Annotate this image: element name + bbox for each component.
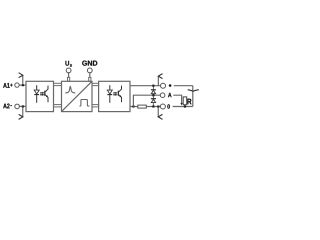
optocoupler U3 light arrow 1 [113, 92, 116, 94]
wire A to load [173, 95, 181, 103]
optocoupler U1 light arrow 1 [40, 92, 43, 94]
test point A2 chevron [19, 114, 23, 119]
label GND [82, 61, 97, 66]
wire bottom line left [130, 106, 138, 108]
optocoupler U1 light arrow 2 [40, 94, 43, 96]
node diode top junction [152, 85, 154, 87]
wire A1 test stem [22, 75, 24, 85]
optocoupler U3 LED anode lead [109, 85, 111, 90]
input isolator box U1 [26, 81, 54, 111]
terminal A2 [15, 104, 20, 109]
optocoupler U1 LED triangle [34, 90, 39, 94]
connector Us stub [68, 77, 70, 81]
test point 0 chevron [158, 114, 162, 119]
diode chain column wire [152, 86, 154, 107]
connector box1-box2 top [54, 83, 62, 85]
connector GND stub [89, 77, 91, 81]
label A2- [3, 104, 12, 109]
diode D2 cathode bar [151, 98, 156, 100]
wire GND stem [89, 73, 91, 78]
optocoupler U3 LED triangle [107, 90, 112, 94]
output isolator box U3 [99, 81, 130, 111]
transistor Q1 base bar [44, 91, 46, 96]
converter U2 spike symbol [65, 86, 75, 93]
transistor Q1 emitter arrowhead [46, 95, 48, 97]
label R [187, 99, 191, 105]
test point A1 chevron [19, 73, 23, 78]
wire external loop vertical [192, 86, 194, 107]
wire A2 to box1 [19, 105, 26, 107]
transistor Q2 collector [118, 86, 121, 93]
node diode mid junction [152, 94, 154, 96]
wire 0 line right [173, 106, 193, 108]
diode D2 triangle [151, 99, 155, 102]
label A1+ [3, 83, 12, 88]
diode D1 cathode bar [151, 89, 156, 91]
wire bottom line mid [146, 106, 160, 108]
terminal Us [66, 68, 71, 73]
converter U2 pulse symbol [79, 100, 89, 107]
node diode bottom junction [152, 105, 154, 107]
label Us [65, 61, 71, 67]
terminal A1 [15, 83, 19, 87]
converter U2 diagonal [62, 81, 93, 111]
wire plus test stem [157, 76, 159, 86]
diode D1 triangle [151, 90, 155, 93]
current direction arrow [188, 90, 199, 92]
node A1 junction [22, 84, 24, 86]
node A2 junction [22, 105, 24, 107]
connector box2-box3 top [92, 83, 99, 85]
wire R to 0 stub [184, 105, 186, 107]
power converter box U2 [62, 81, 93, 111]
label plus bullet [169, 84, 172, 87]
transistor Q2 emitter [118, 94, 121, 102]
label A [168, 93, 171, 97]
wire middle riser [133, 95, 160, 106]
node R junction [184, 105, 186, 107]
connector box1-box2 bottom [54, 105, 62, 107]
load resistor R box [183, 97, 187, 105]
wire A1 to box1 [19, 84, 26, 86]
transistor Q2 emitter arrowhead [119, 95, 121, 97]
transistor Q1 emitter [45, 94, 48, 102]
node 0 test junction [157, 105, 159, 107]
connector box2-box3 bottom [92, 105, 99, 107]
label 0 [167, 104, 169, 108]
optocoupler U1 LED cathode lead [36, 95, 38, 103]
transistor Q2 base bar [117, 91, 119, 96]
wire 0 test stem [157, 107, 159, 117]
optocoupler U3 LED cathode lead [109, 95, 111, 103]
terminal plus [161, 83, 166, 88]
resistor R1 output [138, 105, 147, 108]
optocoupler U1 LED cathode bar [34, 94, 39, 96]
optocoupler U1 LED anode lead [36, 85, 38, 90]
terminal GND [87, 68, 92, 73]
optocoupler U3 LED cathode bar [107, 94, 112, 96]
wire plus line [130, 85, 193, 87]
wire A2 test stem [22, 106, 24, 117]
load wiper arrowhead [180, 103, 182, 105]
test point plus chevron [158, 74, 162, 79]
wire Us stem [68, 73, 70, 78]
transistor Q1 collector [45, 86, 48, 93]
node riser junction [132, 105, 134, 107]
terminal 0 [160, 104, 165, 109]
optocoupler U3 light arrow 2 [113, 94, 116, 96]
terminal A [160, 93, 165, 98]
